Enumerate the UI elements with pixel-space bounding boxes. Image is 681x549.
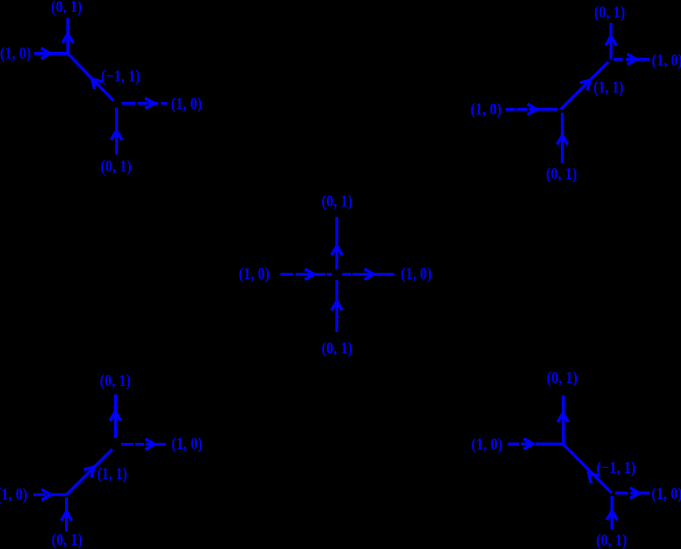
svg-text:(1, 0): (1, 0) [0, 44, 31, 63]
arrow BR diagonal [589, 473, 599, 483]
wire TR diagonal [561, 62, 609, 109]
arrow BL down [61, 512, 72, 521]
wire BR right-ray [615, 492, 650, 495]
svg-text:(−1, 1): (−1, 1) [597, 458, 636, 477]
arrow M bottom [332, 301, 343, 310]
arrow BL diagonal [84, 467, 94, 477]
wire BR up-ray [562, 395, 565, 444]
wire M right-ray [342, 273, 394, 276]
arrow TL left [41, 48, 50, 59]
wire TR up-ray [610, 23, 613, 59]
arrow BR up [558, 413, 569, 422]
svg-text:(0, 1): (0, 1) [52, 530, 83, 549]
wire BR left-ray [508, 442, 563, 445]
wire TL up-ray [66, 18, 69, 53]
arrow M left [305, 269, 314, 280]
arrow TR up [606, 36, 617, 45]
svg-text:(0, 1): (0, 1) [101, 156, 132, 175]
svg-text:(1, 0): (1, 0) [0, 485, 28, 504]
arrow BL up [110, 412, 121, 421]
arrow TR left [528, 104, 537, 115]
arrow BR left [524, 439, 533, 450]
wire BR diagonal [563, 444, 612, 493]
svg-text:(1, 0): (1, 0) [239, 264, 270, 283]
arrow TR down [557, 136, 568, 145]
arrow M right [365, 269, 374, 280]
arrow TL down [111, 131, 122, 140]
arrow TR diagonal [580, 80, 590, 90]
svg-text:(0, 1): (0, 1) [546, 164, 577, 183]
arrow TL up [63, 34, 74, 43]
wire BL left-ray [33, 493, 66, 496]
wire TL diagonal [68, 53, 114, 100]
svg-text:(0, 1): (0, 1) [100, 371, 131, 390]
wire M left-ray [280, 273, 332, 276]
svg-text:(0, 1): (0, 1) [322, 338, 353, 357]
svg-text:(0, 1): (0, 1) [51, 0, 82, 16]
svg-text:(1, 0): (1, 0) [171, 94, 202, 113]
wire BR down-ray [610, 496, 613, 529]
wire BL up-ray [114, 394, 117, 438]
wire TL left-ray [34, 52, 68, 55]
arrow BR right [630, 488, 639, 499]
svg-text:(0, 1): (0, 1) [322, 192, 353, 211]
svg-text:(1, 1): (1, 1) [97, 464, 127, 483]
wire TR left-ray [506, 108, 558, 111]
svg-text:(0, 1): (0, 1) [596, 531, 627, 549]
svg-text:(1, 0): (1, 0) [172, 434, 203, 453]
arrow M top [332, 246, 343, 255]
svg-text:(1, 0): (1, 0) [652, 51, 681, 70]
svg-text:(1, 0): (1, 0) [401, 264, 432, 283]
svg-text:(0, 1): (0, 1) [594, 3, 625, 22]
wire BL down-ray [65, 498, 68, 532]
arrow BL left [42, 489, 51, 500]
svg-text:(1, 0): (1, 0) [471, 435, 502, 454]
wire BL diagonal [67, 449, 113, 495]
arrow TR right [627, 54, 636, 65]
svg-text:(−1, 1): (−1, 1) [101, 67, 140, 86]
wire TL down-ray [115, 108, 118, 155]
wire TR down-ray [561, 113, 564, 163]
wire TL right-ray [122, 102, 167, 105]
wire M top-ray [335, 217, 338, 270]
wire M bottom-ray [335, 280, 338, 332]
svg-text:(0, 1): (0, 1) [547, 368, 578, 387]
wire BL right-ray [121, 443, 166, 446]
arrow TL right [145, 98, 154, 109]
svg-text:(1, 0): (1, 0) [471, 99, 502, 118]
wire TR right-ray [614, 58, 650, 61]
arrow TL diagonal [92, 79, 102, 89]
svg-text:(1, 1): (1, 1) [594, 78, 624, 97]
svg-text:(1, 0): (1, 0) [652, 484, 681, 503]
arrow BL right [145, 439, 154, 450]
arrow BR down [607, 511, 618, 520]
